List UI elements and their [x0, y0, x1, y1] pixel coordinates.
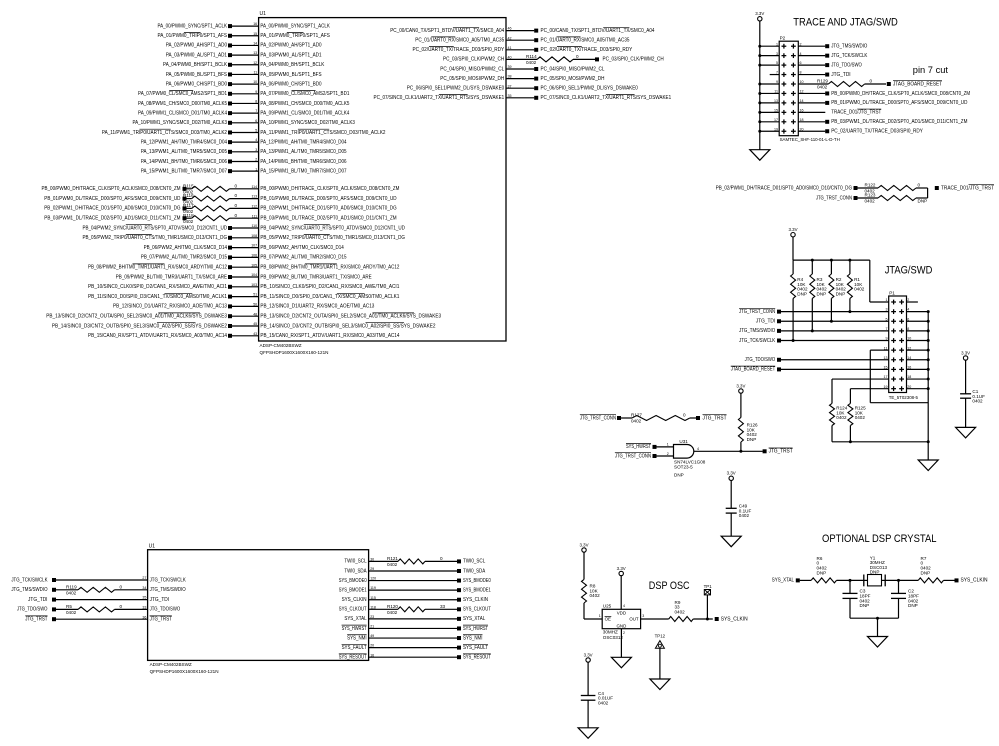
svg-text:SYS_BMODE1: SYS_BMODE1 [463, 587, 491, 593]
node PB_01/PWM0_DL/TRACE_D00/SPT0_AFS/SMC0_D09/CNT0_UD [44, 196, 186, 202]
svg-text:DNP: DNP [921, 570, 931, 575]
svg-text:SYS_XTAL: SYS_XTAL [463, 616, 485, 622]
svg-text:SYS_CLKOUT: SYS_CLKOUT [463, 607, 491, 613]
svg-text:0: 0 [235, 193, 238, 198]
svg-text:JTG_TRST: JTG_TRST [703, 415, 727, 421]
pin number 2 [255, 158, 257, 162]
pin number 33 [142, 606, 146, 610]
wire [369, 560, 398, 562]
node PA_05/PWM0_BL/SPT1_BFS [166, 72, 322, 78]
svg-text:R120: R120 [387, 604, 398, 609]
svg-text:51: 51 [253, 293, 257, 297]
svg-text:PB_03/PWM1_DL/TRACE_D02/SPT0_A: PB_03/PWM1_DL/TRACE_D02/SPT0_AD1/SMC0_D1… [44, 216, 180, 222]
pin number 14 [800, 99, 804, 103]
svg-text:DNP: DNP [908, 603, 918, 608]
ground [721, 536, 741, 547]
resistor R123 0 0402 DNP [857, 193, 927, 204]
wire [758, 101, 779, 104]
resistor R6 0 0402 DNP [800, 556, 864, 583]
node JTG_TCK/SWCLK [825, 53, 868, 59]
pin label PB_07/PWM2_AL/TM0_TMR2/SMC0_D15 [260, 255, 346, 261]
svg-text:114: 114 [251, 185, 257, 189]
resistor R129 0 0402 [817, 79, 886, 90]
pin number 107 [251, 244, 257, 248]
pin number 7 [255, 109, 257, 113]
resistor R115 0 0402 [183, 183, 238, 194]
svg-text:10: 10 [253, 80, 257, 84]
testpoint TP12 [655, 634, 666, 679]
node PC_02/UART0_TX/TRACE_D03/SPI0_RDY [534, 47, 633, 54]
svg-text:SYS_XTAL: SYS_XTAL [772, 578, 794, 584]
pin label PB_05/PWM2_TRIP0/UART0_CTS/TM0_TMR1/SMC0_D13/CNT1_DG [260, 235, 405, 242]
pin number 9 [255, 90, 257, 94]
svg-text:107: 107 [251, 244, 257, 248]
wire [369, 647, 458, 649]
pin number 43 [253, 332, 257, 336]
svg-text:0402: 0402 [631, 419, 642, 424]
resistor R127 0 0402 [621, 413, 696, 424]
svg-text:0: 0 [235, 203, 238, 208]
svg-text:ADSP-CM402BSWZ: ADSP-CM402BSWZ [260, 343, 302, 348]
svg-text:9: 9 [255, 90, 257, 94]
wire [758, 83, 779, 86]
pin number 3 [255, 148, 257, 152]
pin number 4 [800, 52, 802, 56]
pin number 51 [253, 293, 257, 297]
wire [781, 311, 889, 313]
pin label PB_08/PWM2_BH/TM0_TMR1/UART1_RX/SMC0_ARDY/TM0_AC12 [260, 264, 399, 271]
svg-text:PC_03/SPI0_CLK/PWM2_CH: PC_03/SPI0_CLK/PWM2_CH [443, 57, 505, 63]
wire [758, 130, 779, 133]
svg-text:SYS_HWRST: SYS_HWRST [463, 626, 488, 632]
wire [758, 111, 779, 114]
pin number 5 [776, 61, 778, 65]
svg-text:106: 106 [251, 254, 257, 258]
pin number 120 [370, 577, 376, 581]
svg-text:0402: 0402 [836, 415, 847, 420]
svg-text:PA_04/PWM0_BH/SPT1_BCLK: PA_04/PWM0_BH/SPT1_BCLK [163, 62, 228, 68]
svg-text:JTG_TCK/SWCLK: JTG_TCK/SWCLK [11, 577, 48, 583]
ground [578, 728, 598, 739]
svg-text:PA_11/PWM1_TRIP0/UART1_CTS/SMC: PA_11/PWM1_TRIP0/UART1_CTS/SMC0_D03/TM0_… [102, 130, 227, 136]
svg-text:SYS_HWRST: SYS_HWRST [342, 626, 367, 632]
svg-text:TP12: TP12 [655, 634, 666, 639]
node PB_15/CAN0_RX/SPT1_ATDV/UART1_RX/SMC0_A03/TM0_AC14 [88, 333, 232, 339]
testpoint TP1 [704, 584, 713, 619]
svg-text:33: 33 [142, 606, 146, 610]
svg-text:12: 12 [253, 61, 257, 65]
resistor R119 0 0402 [66, 584, 123, 595]
wire [56, 589, 78, 591]
pin number 39 [508, 65, 512, 69]
svg-text:OUT: OUT [629, 617, 639, 622]
svg-text:PB_15/CAN0_RX/SPT1_ATDV/UART1_: PB_15/CAN0_RX/SPT1_ATDV/UART1_RX/SMC0_A0… [88, 333, 227, 339]
svg-text:R116: R116 [183, 193, 194, 198]
pin label JTG_TRST [150, 616, 172, 623]
pin number 41 [508, 46, 512, 50]
pin number 108 [251, 234, 257, 238]
svg-text:3.3V: 3.3V [584, 652, 593, 657]
pin number 42 [508, 36, 512, 40]
node PA_00/PWM0_SYNC/SPT1_ACLK [158, 23, 331, 29]
svg-text:36: 36 [142, 615, 146, 619]
svg-text:SYS_CLKIN: SYS_CLKIN [961, 578, 988, 584]
pin label PB_13/SINC0_D2/CNT2_OUTA/SPI0_SEL2/SMC0_A01/TM0_ACLK6/SYS_DSWAKE3 [260, 313, 441, 320]
pin number 29 [370, 567, 374, 571]
pin number 103 [251, 283, 257, 287]
resistor R124 10K 0402 [830, 379, 889, 442]
node PC_01/UART0_RX/SMC0_A05/TM0_AC35 [534, 37, 629, 44]
resistor R5 0 0402 [66, 604, 123, 615]
node PB_05/PWM2_TRIP0/UART0_CTS/TM0_TMR1/SMC0_D13/CNT1_DG [82, 235, 232, 242]
pin label SYS_HWRST [342, 625, 367, 632]
wire [425, 608, 457, 610]
svg-text:JTG_TDO/SWO: JTG_TDO/SWO [17, 607, 48, 613]
wire pin 13 PA_03 [232, 54, 259, 56]
node JTG_TRST_CONN [580, 415, 621, 422]
node PC_07/SINC0_CLK1/UART2_TX/UART1_RTS/SYS_DSWAKE1 [534, 95, 671, 102]
pin label SYS_CLKIN [342, 597, 367, 603]
pin number 36 [142, 615, 146, 619]
pin label JTG_TCK/SWCLK [150, 577, 187, 583]
node PB_12/SINC0_D1/UART2_RX/SMC0_AOE/TM0_AC13 [113, 304, 232, 310]
connector P1 TE_5T02308-5 [884, 290, 919, 399]
svg-text:DNP: DNP [870, 569, 880, 574]
pin number 13 [774, 99, 778, 103]
pin number 7 [776, 71, 778, 75]
node PB_02/PWM1_DH/TRACE_D01/SPT0_AD0/SMC0_D10/CNT0_DG [716, 185, 858, 191]
svg-text:34: 34 [142, 586, 146, 590]
wire [369, 637, 458, 639]
svg-text:PA_00/PWM0_SYNC/SPT1_ACLK: PA_00/PWM0_SYNC/SPT1_ACLK [158, 23, 228, 29]
svg-text:SYS_RESOUT: SYS_RESOUT [339, 655, 367, 661]
pin number 12 [800, 90, 804, 94]
node PA_11/PWM1_TRIP0/UART1_CTS/SMC0_D03/TM0_ACLK2 [102, 129, 386, 136]
svg-text:48: 48 [253, 312, 257, 316]
pin number 4 [255, 138, 257, 142]
node PB_14/SINC0_D3/CNT2_OUTB/SPI0_SEL3/SMC0_A02/SPI0_SS/SYS_DSWAKE2 [52, 323, 232, 330]
svg-text:OSC0312: OSC0312 [603, 635, 624, 640]
pin number 16 [370, 653, 374, 657]
node JTG_TDO/SWO [745, 357, 781, 363]
wire [230, 198, 259, 200]
resistor R120 33 0402 [387, 604, 446, 615]
svg-text:TWI0_SDA: TWI0_SDA [463, 568, 486, 574]
node SYS_NMI [457, 635, 482, 642]
ground [956, 427, 976, 438]
node PB_03/PWM1_DL/TRACE_D02/SPT0_AD1/SMC0_D11/CNT1_ZM [825, 119, 967, 125]
svg-text:PB_12/SINC0_D1/UART2_RX/SMC0_A: PB_12/SINC0_D1/UART2_RX/SMC0_AOE/TM0_AC1… [260, 304, 374, 310]
svg-text:PC_00/CAN0_TX/SPT1_BTDV/UART1_: PC_00/CAN0_TX/SPT1_BTDV/UART1_TX/SMC0_A0… [541, 28, 655, 34]
svg-text:PC_06/SPI0_SEL1/PWM2_DL/SYS_DS: PC_06/SPI0_SEL1/PWM2_DL/SYS_DSWAKE0 [541, 86, 638, 92]
pin number 112 [251, 205, 257, 209]
wire [115, 589, 148, 591]
svg-text:PC_02/UART0_TX/TRACE_D03/SPI0_: PC_02/UART0_TX/TRACE_D03/SPI0_RDY [412, 47, 504, 53]
wire [506, 49, 534, 51]
resistor R117 0 0402 [183, 203, 238, 214]
svg-text:0: 0 [235, 183, 238, 188]
svg-text:PB_03/PWM1_DL/TRACE_D02/SPT0_A: PB_03/PWM1_DL/TRACE_D02/SPT0_AD1/SMC0_D1… [260, 216, 396, 222]
pin number 34 [142, 586, 146, 590]
svg-text:PB_11/SINC0_D0/SPI0_D3/CAN1_TX: PB_11/SINC0_D0/SPI0_D3/CAN1_TX/SMC0_AMS0… [88, 294, 227, 300]
node TRACE_D01/JTG_TRST [935, 185, 994, 192]
svg-text:DNP: DNP [797, 291, 807, 296]
svg-text:0402: 0402 [598, 700, 609, 705]
note pin 7 cut [913, 65, 949, 75]
svg-text:R121: R121 [387, 556, 398, 561]
wire [230, 207, 259, 209]
pin label SYS_BMODE1 [339, 587, 367, 593]
wire [369, 580, 458, 582]
node SYS_XTAL [772, 578, 800, 584]
svg-text:16: 16 [253, 22, 257, 26]
svg-text:5: 5 [255, 129, 257, 133]
node JTG_TRST_CONN [816, 195, 858, 201]
pin number 104 [251, 273, 257, 277]
wire ground rail [832, 440, 930, 460]
power 3.3V [755, 11, 764, 21]
node PB_02/PWM1_DH/TRACE_D01/SPT0_AD0/SMC0_D10/CNT0_DG [44, 206, 186, 212]
wire [56, 608, 78, 610]
resistor R118 0 0402 [183, 213, 238, 224]
pin number 110 [251, 224, 257, 228]
wire pin 7 PA_09 [232, 112, 259, 114]
pin label PB_12/SINC0_D1/UART2_RX/SMC0_AOE/TM0_AC13 [260, 304, 374, 310]
wire [781, 359, 889, 361]
svg-text:JTG_TRST_CONN: JTG_TRST_CONN [739, 309, 775, 315]
wire [758, 92, 779, 95]
node SYS_HWRST [457, 625, 488, 632]
svg-text:SYS_NMI: SYS_NMI [347, 635, 366, 641]
svg-text:PB_00/PWM0_DH/TRACE_CLK/SPT0_A: PB_00/PWM0_DH/TRACE_CLK/SPT0_ACLK/SMC0_D… [260, 186, 399, 192]
node JTG_TMS/SWDIO [11, 587, 56, 593]
svg-text:0402: 0402 [526, 60, 537, 65]
wire [798, 74, 825, 76]
svg-text:112: 112 [251, 205, 257, 209]
wire [798, 55, 825, 57]
svg-text:R5: R5 [66, 604, 72, 609]
pin label PC_00/CAN0_TX/SPT1_BTDV/UART1_TX/SMC0_A04 [390, 27, 504, 34]
node PA_07/PWM0_CL/SMC0_AMS2/SPT1_BD1 [138, 90, 350, 97]
svg-text:0402: 0402 [855, 415, 866, 420]
svg-text:1: 1 [886, 298, 888, 302]
svg-text:9: 9 [776, 80, 778, 84]
node PA_14/PWM1_BH/TM0_TMR6/SMC0_D06 [141, 159, 347, 165]
node JTAG_BOARD_RESET [887, 81, 942, 88]
svg-text:TRACE_D01/JTG_TRST: TRACE_D01/JTG_TRST [941, 185, 994, 191]
svg-text:PC_00/CAN0_TX/SPT1_BTDV/UART1_: PC_00/CAN0_TX/SPT1_BTDV/UART1_TX/SMC0_A0… [390, 28, 504, 34]
svg-text:DNP: DNP [918, 199, 928, 204]
svg-text:SAMTEC_SHF-110-01-L-D-TH: SAMTEC_SHF-110-01-L-D-TH [780, 137, 840, 142]
svg-text:3.3V: 3.3V [579, 542, 588, 547]
svg-text:0: 0 [683, 413, 686, 418]
svg-text:SOT23-5: SOT23-5 [674, 465, 693, 470]
svg-text:DNP: DNP [860, 603, 870, 608]
wire [232, 305, 259, 307]
svg-text:PB_04/PWM2_SYNC/UART0_RTS/SPT0: PB_04/PWM2_SYNC/UART0_RTS/SPT0_ATDV/SMC0… [82, 225, 227, 231]
svg-text:35: 35 [142, 596, 146, 600]
svg-text:SYS_BMODE1: SYS_BMODE1 [339, 587, 367, 593]
svg-text:PB_00/PWM0_DH/TRACE_CLK/SPT0_A: PB_00/PWM0_DH/TRACE_CLK/SPT0_ACLK/SMC0_D… [42, 186, 181, 192]
wire [798, 45, 825, 47]
svg-text:TRACE AND JTAG/SWD: TRACE AND JTAG/SWD [793, 17, 898, 29]
node SYS_CLKIN [955, 578, 988, 584]
svg-text:SYS_BMODE0: SYS_BMODE0 [339, 578, 367, 584]
title JTAG/SWD [885, 265, 933, 277]
resistor R7 0 0402 DNP [885, 556, 954, 583]
svg-text:PB_02/PWM1_DH/TRACE_D01/SPT0_A: PB_02/PWM1_DH/TRACE_D01/SPT0_AD0/SMC0_D1… [260, 206, 396, 212]
svg-text:PC_04/SPI0_MISO/PWM2_CL: PC_04/SPI0_MISO/PWM2_CL [440, 66, 504, 72]
title OPTIONAL DSP CRYSTAL [822, 533, 937, 545]
wire pin 1 PA_15 [232, 170, 259, 172]
svg-text:TRACE_D01/JTG_TRST: TRACE_D01/JTG_TRST [831, 110, 881, 116]
node PB_13/SINC0_D2/CNT2_OUTA/SPI0_SEL2/SMC0_A01/TM0_ACLK6/SYS_DSWAKE3 [46, 313, 232, 320]
svg-text:2: 2 [255, 158, 257, 162]
svg-text:JTAG/SWD: JTAG/SWD [885, 265, 933, 277]
wire pin 15 PA_01 [232, 35, 259, 37]
svg-text:PA_12/PWM1_AH/TM0_TMR4/SMC0_D0: PA_12/PWM1_AH/TM0_TMR4/SMC0_D04 [141, 139, 227, 145]
pin label TWI0_SCL [344, 559, 366, 565]
svg-text:PA_03/PWM0_AL/SPT1_AD1: PA_03/PWM0_AL/SPT1_AD1 [260, 52, 321, 58]
wire [506, 68, 534, 70]
wire pin 9 PA_07 [232, 93, 259, 95]
svg-text:PA_15/PWM1_BL/TM0_TMR7/SMC0_D0: PA_15/PWM1_BL/TM0_TMR7/SMC0_D07 [141, 168, 227, 174]
svg-text:R123: R123 [865, 193, 876, 198]
pin label SYS_RESOUT [339, 654, 367, 661]
pin number 20 [370, 644, 374, 648]
and-gate U31 SN74LVC1G08 SOT23-5 DNP [667, 439, 706, 477]
svg-text:PB_14/SINC0_D3/CNT2_OUTB/SPI0_: PB_14/SINC0_D3/CNT2_OUTB/SPI0_SEL3/SMC0_… [52, 323, 227, 329]
svg-text:PA_15/PWM1_BL/TM0_TMR7/SMC0_D0: PA_15/PWM1_BL/TM0_TMR7/SMC0_D07 [260, 168, 346, 174]
node JTG_TDO/SWO [825, 62, 862, 68]
svg-text:DNP: DNP [747, 437, 757, 442]
svg-text:50: 50 [253, 303, 257, 307]
wire 3.3V to ground bus [759, 21, 761, 150]
node JTG_TMS/SWDIO [739, 328, 781, 334]
node JTG_TDI [756, 319, 781, 325]
svg-text:3: 3 [642, 614, 644, 618]
wire [781, 330, 889, 332]
svg-text:0: 0 [918, 183, 921, 188]
resistor R125 10K 0402 [848, 389, 889, 442]
wire [369, 589, 458, 591]
svg-text:PA_09/PWM1_CL/SMC0_D01/TM0_ACL: PA_09/PWM1_CL/SMC0_D01/TM0_ACLK4 [260, 110, 349, 116]
pin number 2 [800, 42, 802, 46]
svg-text:PA_01/PWM0_TRIP0/SPT1_AFS: PA_01/PWM0_TRIP0/SPT1_AFS [260, 33, 330, 39]
svg-text:3.3V: 3.3V [736, 383, 745, 388]
svg-text:4: 4 [623, 604, 625, 608]
svg-text:PA_05/PWM0_BL/SPT1_BFS: PA_05/PWM0_BL/SPT1_BFS [260, 72, 322, 78]
pin number 35 [142, 596, 146, 600]
node JTG_TCK/SWCLK [11, 577, 56, 583]
pin number 38 [508, 75, 512, 79]
pin label PC_07/SINC0_CLK1/UART2_TX/UART1_RTS/SYS_DSWAKE1 [374, 95, 505, 102]
svg-text:JTAG_BOARD_RESET: JTAG_BOARD_RESET [731, 367, 775, 373]
svg-text:PB_09/PWM2_BL/TM0_TMR3/UART1_T: PB_09/PWM2_BL/TM0_TMR3/UART1_TX/SMC0_ARE [260, 274, 372, 280]
resistor R3 10K 0402 DNP [810, 260, 827, 332]
svg-text:110: 110 [251, 224, 257, 228]
svg-text:PA_00/PWM0_SYNC/SPT1_ACLK: PA_00/PWM0_SYNC/SPT1_ACLK [260, 23, 330, 29]
svg-text:JTG_TCK/SWCLK: JTG_TCK/SWCLK [831, 53, 868, 59]
pin label PB_10/SINC0_CLK0/SPI0_D2/CAN1_RX/SMC0_AWE/TM0_ACI1 [260, 284, 399, 290]
wire [369, 627, 458, 629]
svg-text:PC_02/UART0_TX/TRACE_D03/SPI0_: PC_02/UART0_TX/TRACE_D03/SPI0_RDY [831, 129, 923, 135]
svg-text:1: 1 [255, 167, 257, 171]
wire pin 14 PA_02 [232, 44, 259, 46]
capacitor C3 18PF 0402 DNP [843, 580, 871, 618]
pin number 14 [253, 42, 257, 46]
wire [781, 340, 889, 342]
node PB_06/PWM2_AH/TM0_CLK/SMC0_D14 [144, 245, 232, 251]
wire [369, 570, 458, 572]
pin number 119 [370, 586, 376, 590]
node PC_04/SPI0_MISO/PWM2_CL [534, 66, 604, 72]
capacitor C1 0.1UF 0402 [960, 350, 985, 427]
node PB_00/PWM0_DH/TRACE_CLK/SPT0_ACLK/SMC0_D08/CNT0_ZM [825, 91, 970, 97]
node PC_03/SPI0_CLK/PWM2_CH [595, 57, 664, 63]
node PA_10/PWM1_SYNC/SMC0_D02/TM0_ACLK3 [132, 120, 355, 126]
svg-text:R117: R117 [183, 203, 194, 208]
wire [369, 618, 458, 620]
svg-text:JTG_TRST: JTG_TRST [150, 617, 172, 623]
svg-text:SYS_XTAL: SYS_XTAL [344, 616, 366, 622]
svg-text:TWI0_SCL: TWI0_SCL [463, 559, 485, 565]
svg-text:JTG_TDI: JTG_TDI [150, 597, 169, 603]
wire [781, 368, 889, 370]
svg-text:JTG_TRST: JTG_TRST [769, 449, 793, 455]
pin label PB_02/PWM1_DH/TRACE_D01/SPT0_AD0/SMC0_D10/CNT0_DG [260, 206, 396, 212]
node TWI0_SCL [457, 559, 485, 565]
node PB_07/PWM2_AL/TM0_TMR2/SMC0_D15 [141, 255, 232, 261]
svg-text:105: 105 [251, 263, 257, 267]
wire [758, 120, 779, 123]
node SYS_CLKOUT [457, 607, 491, 613]
wire [232, 286, 259, 288]
svg-text:PA_08/PWM1_CH/SMC0_D00/TM0_ACL: PA_08/PWM1_CH/SMC0_D00/TM0_ACLK5 [260, 101, 349, 107]
wire pin 3 PA_13 [232, 151, 259, 153]
svg-text:0: 0 [440, 556, 443, 561]
svg-text:103: 103 [251, 283, 257, 287]
svg-text:PA_06/PWM0_CH/SPT1_BD0: PA_06/PWM0_CH/SPT1_BD0 [260, 81, 321, 87]
pin label PB_11/SINC0_D0/SPI0_D3/CAN1_TX/SMC0_AMS0/TM0_ACLK1 [260, 293, 399, 300]
svg-text:SYS_CLKIN: SYS_CLKIN [721, 616, 748, 622]
node PA_01/PWM0_TRIP0/SPT1_AFS [158, 32, 331, 39]
node SYS_BMODE0 [457, 578, 491, 584]
svg-text:0: 0 [235, 213, 238, 218]
wire [656, 446, 673, 448]
resistor R121 0 0402 [387, 556, 443, 567]
pin label PB_09/PWM2_BL/TM0_TMR3/UART1_TX/SMC0_ARE [260, 274, 372, 280]
wire [230, 188, 259, 190]
pin number 48 [253, 312, 257, 316]
wire [506, 30, 534, 32]
capacitor C49 0.1UF 0402 [726, 471, 752, 537]
pin label JTG_TMS/SWDIO [150, 587, 186, 593]
resistor R116 0 0402 [183, 193, 238, 204]
svg-text:SYS_CLKIN: SYS_CLKIN [342, 597, 367, 603]
resistor R4 10K 0402 DNP [791, 260, 808, 342]
pin number 105 [251, 263, 257, 267]
svg-text:JTG_TMS/SWDIO: JTG_TMS/SWDIO [831, 44, 867, 50]
svg-text:0402: 0402 [66, 591, 77, 596]
node SYS_XTAL [457, 616, 485, 622]
pin number 11 [253, 71, 257, 75]
pin label PC_05/SPI0_MOSI/PWM2_DH [440, 76, 504, 82]
svg-text:13: 13 [253, 51, 257, 55]
node JTG_TDI [825, 72, 850, 78]
svg-text:PB_06/PWM2_AH/TM0_CLK/SMC0_D14: PB_06/PWM2_AH/TM0_CLK/SMC0_D14 [260, 245, 344, 251]
svg-text:7: 7 [255, 109, 257, 113]
